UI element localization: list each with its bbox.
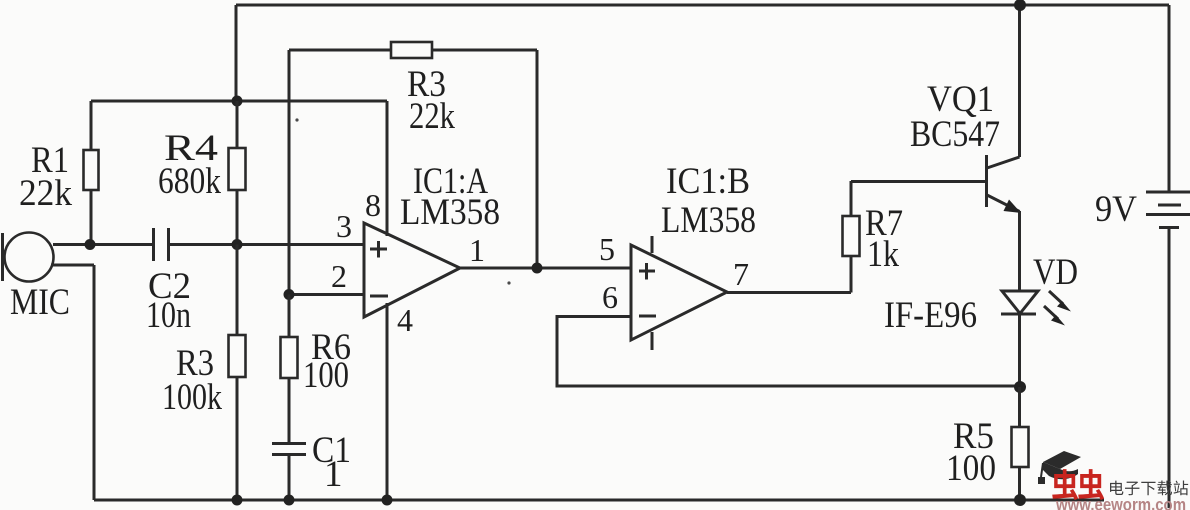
node ground R5 xyxy=(1014,494,1026,506)
label C2 xyxy=(146,266,191,336)
label IC1:B xyxy=(661,161,756,241)
svg-text:BC547: BC547 xyxy=(910,114,1000,155)
resistor R6 xyxy=(281,295,298,444)
wire node A horizontal (R1 top / R4 top / pin8 feed) xyxy=(91,100,387,103)
wire pin 4 ground drop xyxy=(386,303,389,500)
resistor R4 xyxy=(229,101,246,245)
wire top supply rail xyxy=(236,4,1169,7)
node pin2 junction xyxy=(284,289,295,300)
resistor R3 22k feedback xyxy=(289,42,537,268)
svg-text:7: 7 xyxy=(733,256,749,292)
svg-text:VD: VD xyxy=(1033,252,1078,293)
svg-text:100: 100 xyxy=(303,355,349,396)
pin 4 label xyxy=(397,302,413,338)
watermark url xyxy=(1055,495,1186,510)
label R4 xyxy=(158,128,221,202)
svg-text:2: 2 xyxy=(331,258,347,294)
svg-text:100: 100 xyxy=(946,448,996,489)
wire pin 2 horizontal xyxy=(289,293,364,296)
resistor R7 xyxy=(843,181,860,293)
pin 6 label xyxy=(602,279,618,315)
wire mic signal to pin 3 xyxy=(53,243,364,246)
resistor R5 xyxy=(1012,387,1029,500)
pin 2 label xyxy=(331,258,347,294)
label R7 xyxy=(865,203,903,275)
svg-text:680k: 680k xyxy=(158,161,221,202)
svg-text:IF-E96: IF-E96 xyxy=(884,295,977,336)
wire pin 8 vertical xyxy=(386,101,389,236)
svg-text:9V: 9V xyxy=(1095,189,1137,230)
svg-text:1k: 1k xyxy=(867,234,899,275)
node ground C1 xyxy=(284,495,295,506)
label R3 100k xyxy=(162,343,222,418)
node mic/R1 junction xyxy=(85,239,96,250)
wire base feed xyxy=(851,180,985,183)
svg-text:LM358: LM358 xyxy=(400,192,500,233)
wire collector to rail xyxy=(1018,5,1021,157)
wire inverting branch vertical x289 xyxy=(288,50,291,294)
svg-text:IC1:B: IC1:B xyxy=(666,161,750,202)
label R5 xyxy=(946,416,996,489)
svg-text:1: 1 xyxy=(469,232,485,268)
resistor R3 100k xyxy=(229,245,246,501)
label C1 xyxy=(312,430,351,495)
wire right rail to battery xyxy=(1168,5,1171,191)
transistor Q1 VQ1 xyxy=(987,155,1022,213)
label IC1:A xyxy=(400,161,500,233)
label R6 xyxy=(303,327,351,396)
pin 7 label xyxy=(733,256,749,292)
label R1 xyxy=(19,140,72,214)
resistor R1 xyxy=(84,101,99,245)
label 9V xyxy=(1095,189,1137,230)
microphone MIC xyxy=(3,233,95,282)
wire LED cathode down xyxy=(1018,314,1021,387)
label VD xyxy=(1033,252,1078,293)
stray speck 1 xyxy=(295,118,298,121)
svg-text:1: 1 xyxy=(324,454,343,495)
svg-text:6: 6 xyxy=(602,279,618,315)
watermark white box xyxy=(1104,478,1190,504)
label IF-E96 xyxy=(884,295,977,336)
svg-text:22k: 22k xyxy=(19,173,72,214)
battery BT1 9V xyxy=(1146,192,1190,228)
pin 3 label xyxy=(336,208,352,244)
wire emitter to LED xyxy=(1018,211,1021,291)
node A junction xyxy=(232,96,243,107)
stray speck 2 xyxy=(507,281,510,284)
svg-text:100k: 100k xyxy=(162,377,222,418)
svg-text:MIC: MIC xyxy=(10,282,70,323)
node output/feedback junction xyxy=(532,263,543,274)
wire bottom ground rail xyxy=(94,499,1169,502)
capacitor C2 xyxy=(154,228,169,261)
node ground pin4 xyxy=(382,495,393,506)
node ground R3 xyxy=(232,495,243,506)
svg-text:10n: 10n xyxy=(146,295,191,336)
svg-text:3: 3 xyxy=(336,208,352,244)
wire battery negative down xyxy=(1168,228,1171,508)
label MIC xyxy=(10,282,70,323)
svg-text:8: 8 xyxy=(365,187,381,223)
capacitor C1 xyxy=(272,444,306,501)
op-amp U1A IC1:A xyxy=(364,223,460,317)
LED VD xyxy=(1001,291,1071,326)
node collector rail junction xyxy=(1014,0,1026,11)
svg-text:4: 4 xyxy=(397,302,413,338)
svg-text:22k: 22k xyxy=(409,96,455,137)
pin 1 label xyxy=(469,232,485,268)
op-amp U1B IC1:B xyxy=(631,236,727,350)
wire right rail redraw xyxy=(1168,478,1171,508)
label VQ1 xyxy=(910,79,1000,155)
wire top-left drop to node A xyxy=(235,5,238,101)
pin 8 label xyxy=(365,187,381,223)
wire pin 6 feedback loop xyxy=(557,317,1020,387)
node R4 bottom junction xyxy=(232,239,243,250)
svg-text:www.eeworm.com: www.eeworm.com xyxy=(1055,495,1186,510)
svg-text:5: 5 xyxy=(599,231,615,267)
pin 5 label xyxy=(599,231,615,267)
watermark graduation cap logo xyxy=(1038,451,1081,484)
wire mic ground drop xyxy=(93,265,96,500)
watermark chongchong characters xyxy=(1052,469,1104,500)
label R3 22k xyxy=(407,64,455,137)
svg-text:LM358: LM358 xyxy=(661,200,756,241)
wire pin 7 output xyxy=(727,291,851,294)
wire op-amp A output to op-amp B pin 5 xyxy=(460,267,631,270)
node feedback junction xyxy=(1014,381,1026,393)
watermark site name xyxy=(1110,481,1188,496)
